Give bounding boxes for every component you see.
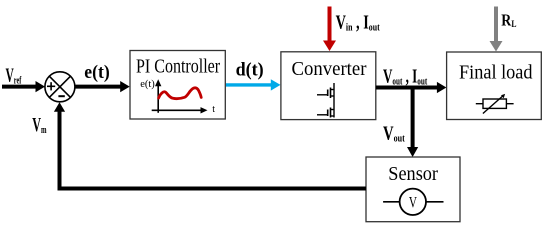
transistor Q2 lower MOSFET: [317, 101, 334, 118]
block PI Controller: [130, 51, 225, 120]
red e(t) curve: [159, 88, 202, 99]
block Sensor: [366, 157, 460, 222]
wire Vout,Iout: [376, 82, 447, 93]
voltmeter V: [383, 189, 443, 215]
wire Vin red input arrow: [323, 7, 336, 52]
wire d(t) cyan: [226, 79, 281, 90]
svg-text:t: t: [212, 104, 215, 115]
svg-text:Final load: Final load: [459, 62, 533, 84]
wire RL gray input arrow: [490, 7, 503, 52]
wire e(t): [75, 81, 130, 92]
block Final load: [447, 52, 542, 120]
svg-text:d(t): d(t): [236, 59, 264, 81]
wire V_ref input: [2, 81, 45, 92]
summing junction: [45, 72, 75, 102]
wire Vout branch down to sensor: [407, 86, 418, 158]
block Converter: [281, 52, 376, 120]
svg-text:Sensor: Sensor: [388, 163, 438, 185]
svg-text:V: V: [409, 193, 417, 210]
svg-text:PI Controller: PI Controller: [136, 55, 220, 77]
axis y e(t): [140, 79, 161, 113]
axis t: [152, 104, 216, 115]
svg-text:Converter: Converter: [292, 59, 367, 81]
varistor RV1: [476, 94, 514, 114]
transistor Q1 upper MOSFET: [317, 83, 334, 101]
svg-text:e(t): e(t): [140, 79, 155, 90]
wire feedback from sensor to summing junction: [54, 102, 366, 188]
svg-text:e(t): e(t): [84, 61, 109, 83]
